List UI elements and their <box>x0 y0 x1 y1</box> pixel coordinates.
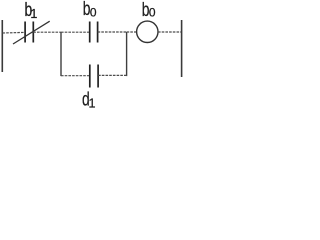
branch wire left horizontal <box>61 75 90 77</box>
wire contact b1 to node A <box>33 31 61 33</box>
right rail <box>181 20 183 77</box>
contact d1 left bar <box>89 65 91 88</box>
svg-text:0: 0 <box>90 5 97 19</box>
wire coil to right rail <box>158 31 182 33</box>
contact b0 left bar <box>89 22 91 43</box>
contact b0 right bar <box>97 22 99 43</box>
contact d1 right bar <box>97 65 99 88</box>
coil b0 circle <box>137 21 158 42</box>
node B branch wire down <box>126 32 128 76</box>
contact b1 left bar <box>24 22 26 43</box>
svg-text:1: 1 <box>89 97 96 111</box>
label d1 <box>82 89 90 111</box>
wire rail to contact b1 <box>3 31 25 34</box>
contact b1 right bar <box>32 22 34 43</box>
wire contact b0 to node B <box>98 31 127 33</box>
branch wire right horizontal <box>98 74 127 76</box>
svg-text:0: 0 <box>149 5 156 19</box>
label b0 coil <box>142 0 150 20</box>
contact b1 NC slash <box>13 21 50 44</box>
label b0 <box>83 0 91 20</box>
wire node B to coil b0 <box>127 31 137 33</box>
node A branch wire down <box>60 32 62 76</box>
label b1 <box>25 0 33 20</box>
svg-text:1: 1 <box>30 7 37 21</box>
left rail <box>1 20 3 72</box>
wire node A to contact b0 <box>61 31 90 33</box>
